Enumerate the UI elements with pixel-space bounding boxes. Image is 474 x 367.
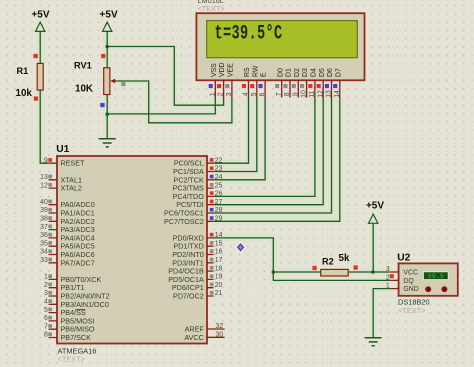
svg-text:1: 1	[209, 92, 216, 96]
svg-text:18: 18	[215, 265, 223, 272]
wire U2 GND to ground	[373, 289, 390, 338]
svg-text:D7: D7	[335, 68, 342, 77]
svg-text:RESET: RESET	[61, 159, 86, 168]
svg-text:32: 32	[216, 323, 224, 330]
svg-text:38: 38	[40, 216, 48, 223]
svg-text:14: 14	[334, 90, 341, 98]
microcontroller U1 ATMEGA16	[57, 156, 207, 344]
svg-text:12: 12	[40, 182, 48, 189]
U2 pin numbers 3 2 1	[386, 266, 390, 290]
svg-text:3: 3	[226, 92, 233, 96]
svg-text:25: 25	[215, 182, 223, 189]
svg-text:28: 28	[215, 207, 223, 214]
svg-text:36: 36	[40, 232, 48, 239]
svg-text:2: 2	[386, 274, 390, 281]
U1 left pin numbers	[40, 157, 48, 338]
node DQ pullup junction	[272, 270, 276, 274]
svg-text:R1: R1	[17, 66, 29, 76]
svg-text:39.5: 39.5	[428, 273, 444, 281]
U1 right pin name labels	[164, 159, 204, 342]
power +5V symbol for R1	[36, 22, 45, 31]
svg-text:9: 9	[44, 157, 48, 164]
R1 terminal state squares	[34, 54, 39, 101]
svg-text:GND: GND	[403, 286, 418, 293]
svg-text:+5V: +5V	[100, 10, 118, 21]
ground symbol below U2	[365, 338, 382, 346]
svg-text:11: 11	[309, 90, 316, 97]
svg-text:13: 13	[40, 174, 48, 181]
svg-text:14: 14	[215, 232, 223, 239]
svg-text:PA7/ADC7: PA7/ADC7	[61, 258, 95, 267]
svg-text:E: E	[261, 72, 268, 77]
wire +5V to R1 top	[39, 31, 41, 63]
wire LCD RW to U1 PC1 pin 23	[214, 98, 257, 172]
wire halo glow	[40, 31, 390, 338]
svg-text:U1: U1	[56, 144, 69, 155]
node +5V VCC junction	[371, 270, 375, 274]
LCD pin numbers 1-14	[209, 90, 341, 98]
svg-text:12: 12	[317, 90, 324, 98]
svg-text:PB7/SCK: PB7/SCK	[61, 333, 92, 342]
svg-text:8: 8	[284, 92, 291, 96]
svg-text:<TEXT>: <TEXT>	[198, 4, 225, 13]
svg-text:1: 1	[386, 283, 390, 290]
svg-text:13: 13	[326, 90, 333, 98]
svg-text:24: 24	[215, 174, 223, 181]
svg-text:XTAL2: XTAL2	[61, 184, 82, 193]
U2 DQ pin state square	[390, 274, 394, 278]
svg-text:10k: 10k	[16, 88, 33, 99]
wire U1 PD0 pin 14 to DQ net	[214, 238, 391, 281]
U1 left pin state squares	[48, 158, 52, 336]
svg-text:7: 7	[44, 323, 48, 330]
svg-text:D3: D3	[302, 68, 309, 77]
svg-text:VCC: VCC	[403, 270, 418, 277]
svg-text:AVCC: AVCC	[184, 333, 203, 342]
svg-text:+5V: +5V	[366, 200, 384, 211]
svg-text:PD7/OC2: PD7/OC2	[173, 292, 204, 301]
svg-text:19: 19	[215, 274, 223, 281]
svg-text:4: 4	[243, 92, 250, 96]
svg-text:DQ: DQ	[403, 278, 414, 285]
wire LCD RS to U1 PC0 pin 22	[214, 98, 249, 164]
temperature sensor U2 DS18B20	[399, 263, 458, 295]
svg-text:D2: D2	[294, 68, 301, 77]
svg-text:30: 30	[216, 332, 224, 339]
wire RV1 top junction to LCD VDD	[107, 47, 223, 106]
svg-text:23: 23	[215, 166, 223, 173]
wire +5V to RV1 top, node at junction	[106, 31, 108, 68]
LCD pin state squares	[209, 84, 338, 88]
U1 left pin name labels	[61, 159, 110, 342]
potentiometer RV1	[104, 68, 118, 95]
svg-text:10: 10	[301, 90, 308, 98]
wire LCD VEE to RV1 wiper	[118, 81, 232, 123]
svg-text:35: 35	[40, 240, 48, 247]
power +5V symbol for U2	[369, 214, 378, 223]
wire R2 right lead to U2 VCC with +5V junction	[348, 271, 390, 273]
LCD pin name labels	[211, 62, 343, 77]
svg-text:t=39.5°C: t=39.5°C	[215, 23, 283, 45]
svg-text:PC7/TOSC2: PC7/TOSC2	[164, 217, 204, 226]
svg-text:RV1: RV1	[74, 60, 92, 70]
svg-text:5: 5	[44, 307, 48, 314]
svg-text:15: 15	[215, 240, 223, 247]
editor move cursor icon	[235, 241, 246, 253]
svg-text:RW: RW	[252, 65, 259, 77]
svg-text:16: 16	[215, 249, 223, 256]
U2 pin stubs	[390, 272, 398, 289]
RV1 terminal state squares	[100, 54, 125, 107]
ground symbol below RV1	[99, 139, 116, 147]
resistor R1	[37, 63, 43, 90]
svg-text:22: 22	[215, 157, 223, 164]
svg-text:RS: RS	[244, 67, 251, 77]
svg-text:3: 3	[386, 266, 390, 273]
node RV1 bottom ground junction	[105, 112, 109, 116]
svg-text:6: 6	[259, 92, 266, 96]
svg-text:D4: D4	[311, 68, 318, 77]
svg-text:7: 7	[276, 92, 283, 96]
svg-text:D1: D1	[286, 68, 293, 77]
svg-text:<TEXT>: <TEXT>	[398, 306, 426, 315]
U1 right pin numbers	[215, 157, 224, 338]
svg-text:17: 17	[215, 257, 223, 264]
svg-text:2: 2	[44, 282, 48, 289]
svg-text:VEE: VEE	[228, 63, 235, 77]
U1 left pin stubs	[49, 163, 57, 337]
svg-text:5k: 5k	[339, 253, 350, 264]
svg-text:33: 33	[40, 257, 48, 264]
LCD display LM016L	[196, 13, 364, 80]
svg-text:VDD: VDD	[219, 62, 226, 77]
svg-text:VSS: VSS	[211, 63, 218, 77]
svg-text:4: 4	[44, 299, 48, 306]
svg-text:9: 9	[292, 92, 299, 96]
svg-text:39: 39	[40, 207, 48, 214]
svg-text:U2: U2	[397, 253, 410, 264]
wire LCD D6 to U1 PC6 pin 28	[214, 98, 332, 214]
svg-text:27: 27	[215, 199, 223, 206]
svg-text:+5V: +5V	[31, 10, 49, 21]
resistor R2	[321, 269, 349, 276]
svg-text:5: 5	[251, 92, 258, 96]
power +5V symbol for RV1	[103, 22, 112, 31]
svg-text:R2: R2	[322, 257, 334, 267]
svg-text:D6: D6	[327, 68, 334, 77]
wire LCD D7 to U1 PC7 pin 29	[214, 98, 340, 222]
svg-text:37: 37	[40, 224, 48, 231]
svg-text:D5: D5	[319, 68, 326, 77]
wire RV1 bottom to ground	[106, 95, 108, 139]
svg-text:29: 29	[215, 216, 223, 223]
wire R1 bottom to U1 RESET pin 9	[40, 90, 49, 163]
svg-text:8: 8	[44, 332, 48, 339]
wire LCD D5 to U1 PC5 pin 27	[214, 98, 324, 205]
node RV1 top junction	[105, 45, 109, 49]
svg-text:26: 26	[215, 191, 223, 198]
U2 pin name labels VCC DQ GND	[403, 270, 418, 294]
U1 right pin state squares	[210, 158, 214, 295]
svg-text:21: 21	[215, 290, 223, 297]
svg-text:10K: 10K	[75, 83, 93, 94]
U1 right pin stubs	[207, 163, 225, 337]
svg-text:D0: D0	[277, 68, 284, 77]
svg-text:6: 6	[44, 315, 48, 322]
LCD pin stubs	[215, 80, 339, 97]
svg-text:34: 34	[40, 249, 48, 256]
wire LCD VSS to RV1 bottom ground rail	[107, 98, 215, 114]
R2 terminal state squares	[312, 265, 357, 270]
svg-text:40: 40	[40, 199, 48, 206]
svg-text:2: 2	[218, 92, 225, 96]
svg-text:1: 1	[44, 274, 48, 281]
svg-text:20: 20	[215, 282, 223, 289]
wire +5V to VCC junction	[372, 224, 374, 272]
svg-text:3: 3	[44, 290, 48, 297]
wire LCD D4 to U1 PC4 pin 26	[214, 98, 315, 197]
wire LCD E to U1 PC2 pin 24	[214, 98, 266, 180]
svg-text:<TEXT>: <TEXT>	[58, 354, 86, 363]
wire DQ junction to R2 left lead	[273, 271, 320, 273]
